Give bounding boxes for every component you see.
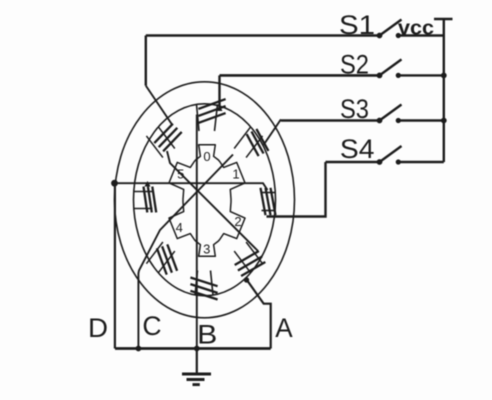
- svg-text:4: 4: [176, 220, 183, 235]
- svg-text:vcc: vcc: [398, 17, 434, 40]
- svg-text:S3: S3: [340, 94, 369, 124]
- svg-text:2: 2: [234, 214, 241, 229]
- svg-text:3: 3: [203, 241, 210, 256]
- svg-text:B: B: [197, 320, 217, 350]
- svg-text:S4: S4: [340, 134, 375, 164]
- svg-text:S1: S1: [339, 10, 375, 40]
- svg-text:0: 0: [203, 149, 210, 164]
- svg-text:S2: S2: [340, 50, 369, 80]
- svg-text:C: C: [142, 311, 161, 341]
- svg-text:A: A: [275, 313, 292, 343]
- svg-text:1: 1: [232, 167, 239, 182]
- svg-text:D: D: [88, 313, 108, 343]
